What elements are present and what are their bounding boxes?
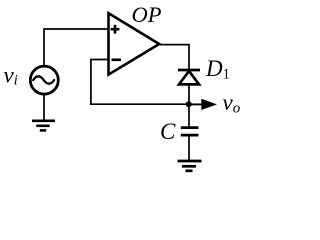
sine symbol inside source (33, 76, 54, 83)
ground (left, under source) (32, 121, 55, 131)
svg-text:C: C (160, 119, 176, 144)
wire: feedback from output node to op-amp - input (91, 60, 186, 105)
wire: source top to op-amp + input (44, 29, 108, 65)
wire: node to capacitor (188, 104, 190, 126)
source V1 (vi) circle (30, 66, 58, 94)
arrow to vo (189, 103, 203, 105)
op-amp U1 triangle (109, 13, 160, 74)
capacitor C plates (181, 128, 199, 136)
wire: op-amp output to diode top (159, 45, 189, 69)
wire: source bottom to ground (43, 95, 45, 120)
diode D1 (cathode bar up) (178, 70, 200, 84)
wire: capacitor to ground (188, 136, 190, 160)
ground (right, under capacitor) (178, 161, 202, 171)
svg-text:OP: OP (132, 2, 162, 27)
node: output junction dot (186, 101, 192, 107)
op-amp + input symbol (111, 25, 120, 34)
wire: diode bottom to output node (188, 85, 190, 105)
op-amp - input symbol (112, 58, 122, 61)
